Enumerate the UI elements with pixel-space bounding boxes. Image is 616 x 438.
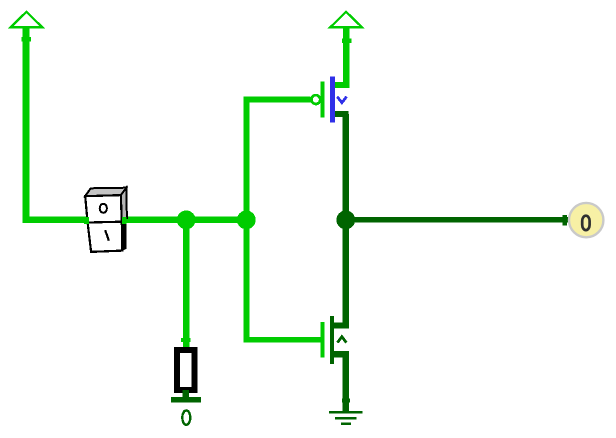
pin notch at resistor top	[181, 338, 191, 342]
NMOS Q2 chevron ^ (dark)	[337, 337, 346, 343]
VDD power symbol left (triangle)	[11, 12, 43, 27]
switch SW1 body: upper half front face (position 0)	[85, 195, 122, 222]
PMOS Q1 chevron v (blue)	[337, 97, 346, 103]
label 0 under resistor rail	[182, 410, 190, 424]
NMOS transistor Q2: gate bar (green)	[320, 322, 324, 358]
wire: VDD left stem down and main horizontal wire to node	[23, 27, 246, 223]
VSS rail bar under resistor	[171, 397, 201, 402]
wire: junction A down to resistor	[183, 220, 189, 347]
wire: VDD right stem down to PMOS source	[343, 27, 350, 88]
resistor bottom lead to rail	[182, 390, 189, 397]
pin notch above ground	[342, 398, 350, 402]
junction A (dot)	[177, 211, 196, 230]
output probe: yellow circle	[569, 203, 603, 237]
pin notch at output wire end	[563, 215, 568, 225]
junction C output node (dot)	[336, 211, 355, 230]
output probe label 0	[582, 216, 589, 230]
VDD power symbol right (triangle)	[330, 12, 362, 27]
switch SW1 label o	[100, 204, 107, 213]
PMOS Q1 drain arm (dark)	[335, 111, 349, 117]
NMOS Q2 source arm and stem down to ground	[334, 351, 349, 411]
wire: PMOS source arm	[335, 82, 350, 88]
wire: junction B up to PMOS gate	[243, 97, 310, 219]
pin square at switch left terminal	[84, 217, 89, 224]
switch SW1 right shadow edge	[122, 224, 127, 251]
switch SW1 body: top 3d face	[85, 188, 126, 197]
pin square at switch right terminal	[122, 217, 127, 224]
switch SW1 body: right 3d face	[121, 188, 127, 218]
wire: output net, PMOS drain to NMOS drain and out to probe	[334, 114, 570, 329]
PMOS Q1 channel bar (blue)	[330, 76, 335, 122]
NMOS Q2 channel bar (dark)	[330, 316, 334, 364]
PMOS transistor Q1: gate bubble	[311, 95, 320, 104]
junction B (dot)	[237, 211, 256, 230]
wire: junction B down to NMOS gate	[243, 221, 320, 343]
ground symbol	[329, 411, 363, 414]
pin notch on right VDD stem	[342, 39, 352, 44]
pin notch on left VDD stem	[22, 37, 32, 42]
resistor R1 (pull-down box)	[177, 350, 195, 390]
PMOS Q1 gate bar (green)	[320, 82, 324, 118]
switch SW1 label 1	[105, 230, 109, 240]
switch SW1 body: lower half front face (position 1)	[88, 222, 123, 252]
